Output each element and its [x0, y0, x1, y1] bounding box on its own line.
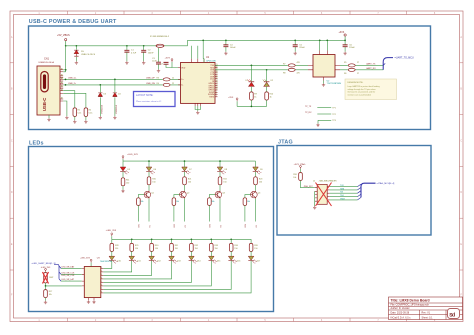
- svg-text:D13: D13: [177, 260, 180, 262]
- capacitor C11: [343, 45, 348, 47]
- wire CN1 sbu to ground: [63, 101, 67, 116]
- capacitor C7: [164, 62, 169, 64]
- resistor R4: [163, 83, 170, 86]
- resistor R22: [218, 177, 222, 185]
- svg-text:2: 2: [101, 271, 102, 273]
- svg-text:1k: 1k: [254, 97, 256, 99]
- junction D+ at D4: [114, 79, 116, 81]
- svg-text:USB_DN: USB_DN: [146, 83, 155, 85]
- junction row1 rail col3: [219, 160, 221, 162]
- svg-text:=UART_TO_MCU: =UART_TO_MCU: [395, 57, 415, 60]
- bus JTAG: [361, 183, 376, 197]
- wire D5 bottom lead: [75, 57, 77, 61]
- ground U3 pin b: [92, 301, 95, 304]
- svg-text:150: 150: [195, 248, 198, 250]
- svg-text:17: 17: [216, 73, 218, 75]
- svg-text:R30: R30: [155, 245, 158, 247]
- svg-text:C: C: [11, 139, 13, 142]
- resistor R16 DNP: [44, 273, 48, 284]
- wire JTAG TRST: [330, 199, 358, 201]
- capacitor C8: [223, 45, 228, 47]
- wire R24 lower: [137, 205, 139, 221]
- wire C2 top lead: [143, 46, 145, 51]
- svg-text:10k: 10k: [49, 294, 52, 296]
- LED D14: [189, 256, 198, 263]
- junction row1 rail col1: [148, 160, 150, 162]
- wire Q2 emitter: [184, 199, 186, 222]
- junction RXD at LED D2: [266, 69, 268, 71]
- svg-text:Q3: Q3: [222, 193, 225, 195]
- svg-text:R18: R18: [293, 174, 296, 176]
- wire D5 to R11: [122, 172, 124, 178]
- svg-text:PESD5V0: PESD5V0: [116, 105, 118, 114]
- wire LED D16 to U3 pin: [103, 261, 231, 290]
- wire row2 col2 drop: [131, 239, 133, 243]
- svg-text:D15: D15: [217, 260, 220, 262]
- ground J2: [313, 206, 316, 209]
- wire LED D14 to U3 pin: [103, 261, 191, 283]
- svg-text:R28: R28: [115, 245, 118, 247]
- wire U1 VDD riser b: [197, 46, 199, 59]
- resistor R27 base: [243, 198, 247, 206]
- power symbol +LED_3V3 at U3: [90, 259, 92, 262]
- svg-text:150: 150: [175, 248, 178, 250]
- wire D6 to resistor: [148, 172, 150, 177]
- svg-text:D14: D14: [197, 260, 200, 262]
- svg-text:Date: 2023-05-28: Date: 2023-05-28: [391, 312, 410, 315]
- LED D6: [146, 167, 155, 174]
- svg-text:F1 MF-MSMF050-2: F1 MF-MSMF050-2: [150, 36, 170, 38]
- svg-text:TRST: TRST: [340, 198, 346, 200]
- IC U1 right pin numbers: [216, 64, 218, 97]
- junction D- at D3: [99, 84, 101, 86]
- svg-text:R3: R3: [157, 77, 159, 79]
- transistor Q4: [251, 191, 258, 199]
- junction +3V3 rail at U1: [202, 40, 204, 42]
- junction D- pin pair: [65, 84, 67, 86]
- wire D1 to R9: [250, 87, 252, 92]
- svg-text:20: 20: [216, 66, 218, 68]
- wire D5 top lead: [75, 46, 77, 50]
- svg-text:=LED_SHIFT_REG[1..3]: =LED_SHIFT_REG[1..3]: [32, 263, 56, 265]
- svg-text:18: 18: [216, 71, 218, 73]
- svg-text:A4: A4: [61, 81, 63, 84]
- svg-text:RSTb: RSTb: [209, 97, 214, 99]
- IC U1 bottom pins: [195, 103, 200, 106]
- svg-text:TP2: TP2: [332, 114, 335, 116]
- IC U1 right pin names: [208, 65, 215, 98]
- power symbol +LED_3V3 row1: [122, 156, 124, 159]
- section box JTAG: [277, 146, 431, 236]
- svg-text:LAYOUT NOTE:: LAYOUT NOTE:: [136, 94, 154, 97]
- svg-text:+3V3: +3V3: [165, 57, 171, 59]
- svg-text:7: 7: [101, 288, 102, 290]
- wire R23 to Q4: [255, 185, 257, 191]
- svg-text:+3V3: +3V3: [339, 31, 345, 34]
- svg-text:220nF: 220nF: [349, 47, 355, 49]
- wire R32 to LED: [190, 251, 192, 256]
- svg-text:Sheet: 1/1: Sheet: 1/1: [422, 316, 434, 319]
- DNP cross over R16: [43, 272, 49, 284]
- wire D5 column drop: [122, 161, 124, 167]
- wire C3 bottom lead: [158, 64, 160, 69]
- svg-text:150: 150: [126, 182, 129, 184]
- svg-text:LED_SR_LAT: LED_SR_LAT: [62, 278, 75, 281]
- junction +3V3 at C9: [294, 40, 296, 42]
- ground below U1: [196, 111, 199, 114]
- LED D9: [253, 167, 262, 174]
- diode D4: [113, 93, 117, 97]
- svg-text:EN4: EN4: [245, 224, 247, 228]
- wire D9 to resistor: [255, 172, 257, 177]
- svg-text:USB4105-GF-A: USB4105-GF-A: [39, 61, 55, 64]
- svg-text:8: 8: [101, 292, 102, 294]
- power symbol +3V3_JTAG: [300, 166, 302, 169]
- svg-text:TP_TX: TP_TX: [305, 106, 312, 108]
- svg-text:22: 22: [172, 83, 174, 85]
- junction LED return: [251, 106, 253, 108]
- svg-text:150: 150: [259, 181, 262, 183]
- svg-text:22: 22: [172, 77, 174, 79]
- bus entry TMS: [358, 187, 362, 190]
- svg-text:220nF: 220nF: [299, 47, 305, 49]
- svg-text:R33: R33: [215, 245, 218, 247]
- wire R28 to LED: [111, 251, 113, 256]
- wire C11 top lead: [344, 40, 346, 45]
- svg-text:3: 3: [101, 274, 102, 276]
- wire U1 VREGIN riser: [202, 40, 205, 62]
- wire R2 bottom lead: [85, 116, 87, 120]
- svg-text:8: 8: [216, 93, 217, 95]
- svg-text:K2: K2: [185, 225, 187, 227]
- LED D5 power indicator: [120, 167, 129, 174]
- svg-text:6: 6: [101, 285, 102, 287]
- wire C7 leads: [166, 65, 172, 68]
- wire R17 top lead: [45, 286, 47, 290]
- svg-text:10k: 10k: [247, 201, 250, 203]
- wire R25 lower: [173, 205, 175, 221]
- wire C1 bottom lead: [126, 52, 128, 61]
- ground CN1 sbu: [65, 116, 68, 119]
- svg-text:D11: D11: [137, 260, 140, 262]
- LED D17: [248, 256, 257, 263]
- svg-text:R34: R34: [234, 245, 237, 247]
- wire row1 rail: [123, 160, 256, 162]
- svg-text:C7: C7: [161, 64, 163, 66]
- svg-text:5: 5: [101, 281, 102, 283]
- svg-text:TP1: TP1: [332, 108, 335, 110]
- wire C2 bottom lead: [143, 52, 145, 61]
- svg-text:10k: 10k: [176, 201, 179, 203]
- wire R31 to LED: [171, 251, 173, 256]
- wire Q1 emitter: [148, 199, 150, 222]
- wire Q4 base: [245, 195, 251, 198]
- title block row lines: [389, 303, 463, 320]
- resistor R11: [121, 178, 125, 186]
- wire D4 top lead: [114, 79, 116, 92]
- svg-text:K1: K1: [149, 225, 151, 227]
- resistor R7: [288, 64, 295, 67]
- svg-text:1: 1: [101, 267, 102, 269]
- svg-text:D12: D12: [157, 260, 160, 262]
- svg-text:TP_RX: TP_RX: [305, 112, 312, 114]
- wire LED_SR_DAT: [61, 267, 82, 269]
- svg-text:+LED_3V3: +LED_3V3: [80, 258, 91, 260]
- wire C1 top lead: [126, 46, 128, 51]
- resistor R35: [249, 243, 253, 251]
- LED D12: [149, 256, 158, 263]
- svg-text:JTAG-SMD-HEADER: JTAG-SMD-HEADER: [319, 180, 338, 183]
- svg-text:the board is un powered, and t: the board is un powered, and the: [348, 91, 376, 94]
- wire U2 ground lead: [323, 81, 325, 84]
- wire J2 left pins to ground: [314, 191, 316, 206]
- svg-text:5.1k: 5.1k: [89, 113, 93, 115]
- wire R22 to Q3: [219, 185, 221, 191]
- svg-text:7: 7: [216, 96, 217, 98]
- wire UART_RX net: [340, 69, 383, 71]
- svg-text:USB_D-: USB_D-: [68, 83, 76, 85]
- wire JTAG TDI: [330, 192, 358, 194]
- wire Q3 base: [209, 195, 215, 198]
- ground below C1: [125, 61, 128, 64]
- svg-text:voltage through the TX pins wh: voltage through the TX pins when: [348, 88, 376, 91]
- power symbol LED return: [236, 98, 238, 101]
- resistor R32: [190, 243, 194, 251]
- resistor R5: [348, 64, 355, 67]
- IC U1 left pin names: [181, 67, 186, 86]
- wire LED D17 to U3 pin: [103, 261, 251, 293]
- svg-text:13: 13: [216, 82, 218, 84]
- svg-text:5.1k: 5.1k: [78, 113, 82, 115]
- svg-text:10k: 10k: [141, 201, 144, 203]
- svg-text:4.7uF: 4.7uF: [131, 52, 137, 54]
- resistor R9: [250, 92, 254, 100]
- wire U1 VDD riser a: [191, 46, 193, 59]
- wire LED D11 to U3 pin: [103, 261, 131, 272]
- wire VBUS riser: [63, 46, 65, 72]
- wire TXD net: [215, 64, 308, 66]
- resistor R3: [163, 78, 170, 81]
- wire row2 col6 drop: [210, 239, 212, 243]
- junction R16 R17: [45, 285, 47, 287]
- resistor R25 base: [172, 198, 176, 206]
- svg-text:Place resistors close to IC: Place resistors close to IC: [136, 100, 162, 103]
- svg-text:A5: A5: [61, 85, 63, 88]
- ground below R1: [73, 120, 76, 123]
- note box layout note: [134, 92, 176, 107]
- svg-text:27: 27: [357, 73, 359, 75]
- LED D2: [263, 79, 270, 86]
- svg-text:LEDs: LEDs: [29, 140, 44, 146]
- wire D2 to R10: [266, 87, 268, 92]
- capacitor C1: [124, 50, 129, 52]
- svg-text:R11: R11: [126, 179, 129, 181]
- junction row1 rail col2: [184, 160, 186, 162]
- fuse F1: [156, 44, 164, 47]
- svg-text:R17: R17: [49, 291, 52, 293]
- svg-text:+3V3: +3V3: [228, 97, 234, 99]
- junction row2 rail col2: [131, 238, 133, 240]
- svg-text:100nF: 100nF: [230, 47, 236, 49]
- svg-text:LED_SR_DAT: LED_SR_DAT: [62, 266, 76, 269]
- bus entry TRST: [358, 197, 362, 200]
- ground below D4: [113, 116, 116, 119]
- svg-text:Q4: Q4: [258, 193, 261, 195]
- junction +3V3 at U2 pin a: [319, 40, 321, 42]
- junction +5V at C1: [126, 45, 128, 47]
- svg-text:USB_DP: USB_DP: [146, 78, 155, 80]
- svg-text:Q1: Q1: [151, 193, 154, 195]
- wire U1 VDD feed: [172, 62, 178, 68]
- wire R34 to LED: [230, 251, 232, 256]
- wire JTAG pullup stem: [300, 169, 302, 173]
- wire R11 to ground: [122, 186, 124, 190]
- resistor R18: [299, 173, 303, 181]
- resistor R20: [147, 177, 151, 185]
- svg-text:JTAG: JTAG: [278, 139, 293, 145]
- resistor R8: [288, 68, 295, 71]
- IC U1 left pins: [178, 68, 181, 85]
- power symbol +5V_VBUS: [65, 39, 67, 46]
- wire C9 top lead: [294, 40, 296, 45]
- svg-text:R20: R20: [152, 178, 155, 180]
- svg-text:150: 150: [215, 248, 218, 250]
- wire D3 top lead: [99, 85, 101, 93]
- svg-text:USB-C POWER & DEBUG UART: USB-C POWER & DEBUG UART: [29, 19, 117, 25]
- svg-text:UART_RX: UART_RX: [366, 67, 376, 70]
- wire C8 top lead: [225, 40, 227, 45]
- LED D13: [169, 256, 178, 263]
- ground below C9: [294, 52, 297, 55]
- wire row1 col2 drop: [184, 161, 186, 167]
- svg-text:Sd: Sd: [449, 311, 455, 318]
- svg-text:UART_TX: UART_TX: [366, 63, 376, 66]
- wire R33 to LED: [210, 251, 212, 256]
- junction TXD at LED D1: [251, 65, 253, 67]
- LED D8: [217, 167, 226, 174]
- wire +3V3 rail: [187, 39, 345, 41]
- title block logo: [448, 309, 460, 319]
- ground below D5: [75, 61, 78, 64]
- wire row2 col7 drop: [230, 239, 232, 243]
- wire LED D12 to U3 pin: [103, 261, 151, 276]
- resistor R31: [170, 243, 174, 251]
- wire TP3: [318, 120, 331, 123]
- svg-text:150: 150: [234, 248, 237, 250]
- resistor R21: [183, 177, 187, 185]
- connector CN1 pins: [60, 70, 63, 101]
- IC U1 top pins: [192, 59, 205, 63]
- wire R20 to Q1: [148, 185, 150, 191]
- diode D3: [98, 93, 102, 97]
- svg-text:R32: R32: [195, 245, 198, 247]
- wire CC2: [63, 93, 86, 108]
- svg-text:K4: K4: [256, 225, 258, 227]
- svg-text:Loop UARTRX to protect back fe: Loop UARTRX to protect back feeding: [348, 85, 380, 88]
- resistor R34: [229, 243, 233, 251]
- wire R1 bottom lead: [74, 116, 76, 120]
- wire C8 bottom lead: [225, 47, 227, 52]
- svg-text:+LED_3V3: +LED_3V3: [106, 230, 117, 232]
- svg-text:CN1: CN1: [44, 58, 50, 61]
- resistor R23: [254, 177, 258, 185]
- LED D10: [109, 256, 118, 263]
- wire R27 lower: [244, 205, 246, 221]
- svg-text:R7: R7: [283, 63, 285, 65]
- svg-text:R8: R8: [283, 73, 285, 75]
- svg-text:100nF: 100nF: [148, 52, 155, 54]
- resistor R28: [110, 243, 114, 251]
- wire JTAG TDO: [330, 196, 358, 198]
- power symbol +3V3 rail: [344, 34, 346, 41]
- svg-text:R22: R22: [223, 178, 226, 180]
- svg-text:EN2: EN2: [174, 224, 176, 228]
- svg-text:D: D: [11, 191, 13, 194]
- svg-text:150: 150: [155, 248, 158, 250]
- wire JTAG TCK: [330, 186, 358, 188]
- wire D4 bottom lead: [114, 97, 116, 116]
- diode D5: [74, 50, 78, 56]
- svg-text:150: 150: [152, 181, 155, 183]
- resistor R17: [44, 290, 48, 298]
- svg-text:R6: R6: [344, 73, 346, 75]
- wire row2 col3 drop: [151, 239, 153, 243]
- bus entry TCK: [358, 184, 362, 187]
- title block outline: [389, 297, 463, 320]
- capacitor C2: [141, 50, 146, 52]
- svg-text:R5: R5: [344, 62, 346, 64]
- svg-text:TDI: TDI: [340, 192, 344, 194]
- power symbol at R16: [45, 269, 47, 272]
- svg-text:TDO: TDO: [340, 195, 345, 197]
- connector CN1 pin numbers: [61, 67, 63, 99]
- wire C11 bottom lead: [344, 47, 346, 52]
- svg-text:R4: R4: [157, 83, 159, 85]
- wire R30 to LED: [151, 251, 153, 256]
- DNP cross over J2: [316, 183, 332, 207]
- IC U1 body: [181, 63, 216, 104]
- resistor R6: [348, 68, 355, 71]
- svg-text:470: 470: [297, 62, 300, 64]
- svg-text:12: 12: [216, 84, 218, 86]
- ground below C8: [224, 52, 227, 55]
- IC U3 bottom pins: [89, 298, 95, 301]
- wire LED D2 drop: [266, 70, 268, 82]
- junction +5V at D5: [76, 45, 78, 47]
- svg-text:10uF: 10uF: [152, 61, 157, 63]
- wire USB D+ net: [63, 78, 180, 80]
- svg-text:EN1: EN1: [139, 224, 141, 228]
- connector CN1 receptacle glyph: [41, 72, 48, 92]
- svg-text:150: 150: [135, 248, 138, 250]
- ground below R2: [84, 120, 87, 123]
- IC U2 body: [313, 55, 335, 78]
- wire Q1 base: [138, 195, 144, 198]
- wire U3 power stem: [90, 263, 92, 267]
- ground below D3: [99, 116, 102, 119]
- junction row2 rail col4: [171, 238, 173, 240]
- svg-text:D: D: [460, 191, 462, 194]
- wire R16 to U3: [46, 283, 82, 286]
- svg-text:14: 14: [216, 80, 218, 82]
- wire R29 to LED: [131, 251, 133, 256]
- wire row2 col5 drop: [190, 239, 192, 243]
- junction row2 rail col7: [230, 238, 232, 240]
- svg-text:Rev: V1: Rev: V1: [422, 312, 431, 315]
- svg-text:R23: R23: [259, 178, 262, 180]
- svg-text:74HC595PW: 74HC595PW: [100, 261, 112, 263]
- wire R18 to J2: [301, 181, 315, 188]
